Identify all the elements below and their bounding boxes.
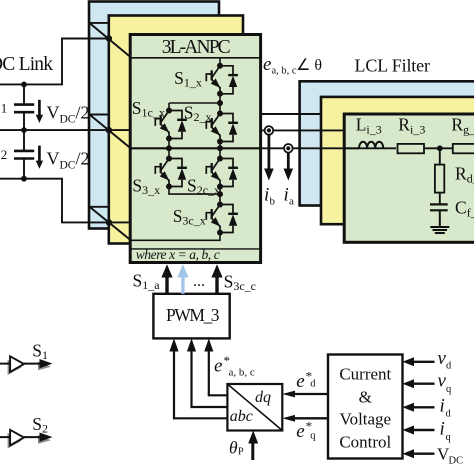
svg-text:S1_a: S1_a: [133, 271, 161, 293]
svg-text:i: i: [440, 396, 445, 417]
svg-text:S1: S1: [32, 341, 48, 363]
svg-text:3L-ANPC: 3L-ANPC: [162, 37, 231, 58]
svg-text:i: i: [440, 419, 445, 440]
svg-text:Current: Current: [339, 365, 391, 384]
svg-text:abc: abc: [230, 408, 253, 425]
svg-text:i: i: [264, 185, 269, 206]
svg-text:e: e: [296, 371, 304, 392]
svg-text:S2: S2: [32, 414, 48, 436]
svg-text:DC: DC: [449, 456, 464, 467]
svg-text:Control: Control: [339, 433, 391, 452]
svg-text:VDC/2: VDC/2: [47, 103, 90, 126]
svg-text:q: q: [310, 431, 316, 442]
svg-text:a, b, c: a, b, c: [229, 367, 255, 379]
svg-text:b: b: [270, 196, 276, 208]
svg-text:e: e: [263, 54, 271, 75]
svg-text:i: i: [284, 185, 289, 206]
svg-text:d: d: [446, 361, 452, 372]
svg-text:...: ...: [193, 273, 205, 290]
svg-text:C2: C2: [0, 139, 7, 162]
svg-text:e: e: [214, 356, 222, 377]
svg-text:∠ θ: ∠ θ: [296, 57, 322, 74]
svg-text:VDC/2: VDC/2: [47, 149, 90, 172]
svg-text:e: e: [296, 421, 304, 442]
svg-text:θ: θ: [229, 438, 238, 458]
svg-text:C1: C1: [0, 93, 7, 116]
svg-text:S3c_c: S3c_c: [224, 272, 256, 294]
svg-text:PWM_3: PWM_3: [166, 305, 220, 325]
svg-text:P: P: [238, 447, 244, 458]
svg-text:d: d: [446, 408, 452, 419]
svg-text:dq: dq: [255, 389, 271, 406]
svg-text:q: q: [446, 432, 452, 443]
svg-text:q: q: [446, 384, 452, 395]
svg-text:where x = a, b, c: where x = a, b, c: [136, 247, 220, 262]
svg-text:a: a: [289, 196, 294, 208]
svg-text:LCL Filter: LCL Filter: [355, 56, 431, 76]
svg-text:Voltage: Voltage: [339, 410, 391, 429]
svg-text:&: &: [359, 388, 372, 407]
svg-text:DC Link: DC Link: [0, 54, 53, 75]
svg-text:a, b, c: a, b, c: [272, 65, 297, 76]
svg-text:d: d: [310, 379, 316, 390]
